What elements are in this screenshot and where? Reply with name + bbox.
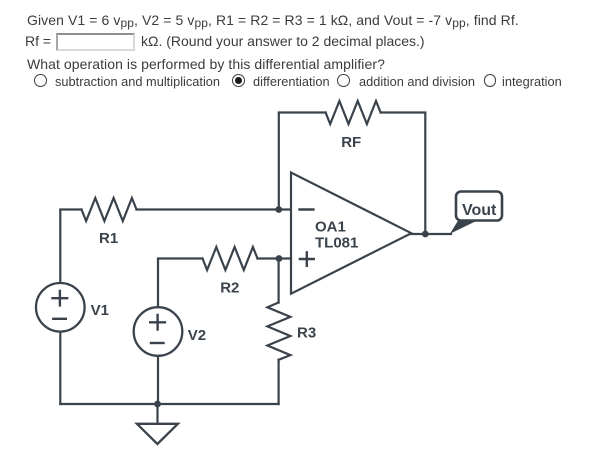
wire: R3 bottom lead bbox=[278, 360, 280, 404]
Vout callout box bbox=[456, 192, 502, 221]
svg-text:RF: RF bbox=[341, 134, 361, 151]
wire: V1 top lead up to R1 level bbox=[60, 210, 81, 285]
svg-text:V2: V2 bbox=[188, 327, 206, 344]
resistor R1 bbox=[82, 198, 137, 221]
label RF bbox=[341, 134, 361, 151]
question line 2: units and rounding note bbox=[141, 34, 425, 48]
wire: feedback left vertical and top-left segment bbox=[279, 113, 326, 210]
question line 2: Rf label bbox=[25, 34, 51, 48]
node: ground junction bbox=[154, 401, 161, 408]
resistor RF bbox=[326, 101, 381, 124]
label Vout bbox=[462, 202, 497, 219]
op-amp inverting input minus symbol bbox=[298, 208, 314, 210]
svg-text:OA1: OA1 bbox=[315, 219, 346, 236]
wire: R2 to non-inverting input bbox=[258, 257, 292, 259]
svg-text:R1: R1 bbox=[99, 230, 118, 247]
wire: feedback top-right segment and right vertical down to output bbox=[381, 113, 426, 235]
op-amp non-inverting input plus symbol bbox=[299, 251, 315, 267]
wire: R1 to inverting input bbox=[137, 208, 292, 210]
wire: R3 top lead bbox=[278, 259, 280, 303]
radio option 3 bbox=[337, 74, 350, 87]
label R2 bbox=[220, 280, 239, 297]
node: output junction bbox=[422, 231, 429, 238]
node: inverting input junction bbox=[275, 206, 282, 213]
wire: V2 top lead and R2 left lead bbox=[158, 259, 203, 309]
wire: V1 bottom lead bbox=[59, 331, 61, 404]
svg-text:V1: V1 bbox=[91, 302, 109, 319]
svg-text:Vout: Vout bbox=[462, 202, 497, 219]
op-amp OA1 triangle bbox=[291, 173, 411, 294]
wire: ground stem bbox=[156, 404, 158, 424]
label R3 bbox=[297, 325, 316, 342]
radio option 4 bbox=[484, 74, 497, 87]
resistor R3 bbox=[267, 303, 290, 360]
voltage source V1 bbox=[36, 283, 85, 332]
wire: V2 bottom lead bbox=[157, 356, 159, 405]
Vout callout tail bbox=[450, 221, 477, 234]
radio option 2 (selected) bbox=[232, 74, 245, 87]
label V1 bbox=[91, 302, 109, 319]
radio option 1 bbox=[34, 74, 47, 87]
svg-text:R3: R3 bbox=[297, 325, 316, 342]
question line 1 bbox=[27, 13, 519, 27]
label V2 bbox=[188, 327, 206, 344]
label R1 bbox=[99, 230, 118, 247]
node: non-inverting input junction bbox=[276, 255, 283, 262]
svg-text:R2: R2 bbox=[220, 280, 239, 297]
question line 3 bbox=[27, 57, 385, 71]
wire: op-amp output to Vout callout bbox=[411, 233, 451, 235]
ground bbox=[137, 424, 178, 444]
answer input box bbox=[56, 33, 135, 51]
svg-text:TL081: TL081 bbox=[315, 235, 358, 252]
voltage source V2 bbox=[134, 307, 183, 356]
resistor R2 bbox=[203, 247, 258, 270]
label OA1 bbox=[315, 219, 346, 236]
label TL081 bbox=[315, 235, 358, 252]
wire: bottom rail bbox=[60, 403, 278, 405]
